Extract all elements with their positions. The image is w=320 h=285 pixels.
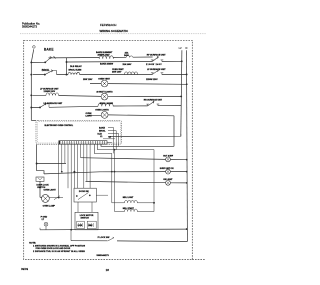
lamp row A (81, 158, 187, 160)
svg-text:BROIL ELEM: BROIL ELEM (69, 69, 82, 71)
svg-text:OVEN LIGHT: OVEN LIGHT (44, 189, 57, 191)
heater oven vent element (125, 72, 138, 75)
svg-text:LR SURFACE UNIT: LR SURFACE UNIT (44, 102, 63, 105)
lock motor box 2 (75, 212, 98, 230)
pin stub 3 (108, 134, 119, 147)
switch broil (row2) (44, 70, 57, 76)
wire control lower feed (101, 144, 174, 146)
wire row1 jog (66, 58, 68, 62)
resistor bake element (99, 56, 113, 59)
wire dlb drop (66, 62, 68, 75)
svg-text:LIGHT: LIGHT (86, 116, 93, 118)
indicator lamp C (166, 180, 171, 185)
svg-text:OVEN VENT: OVEN VENT (98, 78, 110, 80)
svg-text:MDL START: MDL START (123, 207, 135, 210)
svg-text:OVEN LAMP: OVEN LAMP (43, 205, 56, 208)
wire row2 (33, 73, 187, 75)
svg-text:N: N (186, 46, 188, 50)
svg-text:L2: L2 (179, 46, 183, 50)
svg-text:LOCK: LOCK (78, 225, 83, 227)
relay box 1 (74, 188, 96, 202)
resistor broil element (68, 72, 80, 74)
svg-text:WIRING SCHEMATIC: WIRING SCHEMATIC (100, 29, 129, 33)
sub box unlock (87, 221, 96, 229)
wire L2 rail (181, 50, 182, 136)
svg-text:1250W 120V: 1250W 120V (146, 79, 158, 81)
svg-text:L1: L1 (100, 136, 103, 138)
svg-text:FEF352ACH: FEF352ACH (100, 23, 116, 27)
svg-text:RR SURFACE UNIT: RR SURFACE UNIT (144, 98, 163, 101)
svg-text:1250W 120V: 1250W 120V (44, 91, 56, 93)
op box electronic oven control (36, 120, 122, 144)
svg-text:BAKE: BAKE (44, 47, 54, 51)
svg-text:25A 240V: 25A 240V (123, 63, 132, 66)
pin stub 1 (108, 128, 114, 154)
svg-text:MDL LIGHT: MDL LIGHT (123, 197, 134, 199)
connector terminal strip (59, 141, 107, 145)
svg-text:DOOR SW: DOOR SW (79, 191, 89, 193)
svg-text:HOT SURF: HOT SURF (163, 156, 174, 158)
indicator lamp B (166, 169, 171, 174)
svg-text:DLB RELAY: DLB RELAY (70, 65, 82, 68)
header dotted rule (20, 33, 206, 35)
svg-text:DLB: DLB (98, 133, 103, 135)
wire L1 rail (31, 49, 33, 120)
svg-text:25W 120V: 25W 120V (83, 79, 93, 81)
svg-text:BAKE: BAKE (99, 126, 106, 129)
wire row1 upper branch (49, 56, 153, 59)
junction row4-L2 (180, 95, 182, 97)
coil latch relay 2 (115, 150, 155, 212)
svg-text:LT: LT (42, 219, 45, 221)
wire L1 to control corner (31, 119, 36, 121)
indicator lamp A (166, 157, 171, 162)
wire row4 (32, 95, 181, 96)
pin stub 4 to L2 (108, 135, 122, 137)
wire row5 (32, 106, 181, 108)
svg-text:2100W 240V: 2100W 240V (146, 63, 162, 66)
resistor broil inner element (row5) (98, 103, 113, 106)
labels tiny text (29, 47, 174, 257)
svg-text:1 SWITCHES SHOWN IN A NORMAL: 1 SWITCHES SHOWN IN A NORMAL OFF POSITIO… (33, 245, 86, 248)
svg-text:BROIL: BROIL (99, 130, 106, 132)
wire control to L2 (122, 134, 181, 136)
svg-text:2585W 240V: 2585W 240V (98, 53, 111, 56)
junction row1-L2 (181, 60, 183, 62)
svg-text:UNLK: UNLK (88, 225, 93, 227)
lamp oven light 2 (101, 112, 108, 119)
wire row3 oven vent (90, 82, 187, 85)
svg-text:18: 18 (106, 268, 110, 272)
coil latch relay 1 (112, 153, 154, 202)
lamp oven vent (101, 80, 108, 87)
svg-text:FOR OVEN DOOR LOCK AND DOOR: FOR OVEN DOOR LOCK AND DOOR (36, 247, 71, 250)
wire box1 to box2 (78, 202, 92, 212)
lamp row B (44, 172, 187, 174)
svg-text:240V: 240V (124, 54, 129, 57)
resistor surface unit row4 (46, 93, 59, 96)
wire door box to lamp (40, 181, 42, 198)
svg-text:BROIL 3000W: BROIL 3000W (100, 103, 113, 105)
svg-text:OVEN LIGHTS: OVEN LIGHTS (95, 110, 109, 112)
switch bake (row1) (44, 56, 56, 63)
svg-text:BAKE 2585W: BAKE 2585W (100, 62, 113, 65)
pin stub 2 (108, 131, 116, 150)
svg-text:BROIL: BROIL (42, 69, 50, 72)
svg-text:Publication No.: Publication No. (22, 21, 40, 25)
svg-text:5995344273: 5995344273 (97, 254, 110, 257)
svg-text:NOTE:: NOTE: (29, 243, 36, 245)
svg-text:SWITCH: SWITCH (81, 217, 90, 219)
wire row1 lower (31, 61, 182, 62)
svg-text:40 WATT LIGHTS: 40 WATT LIGHTS (96, 90, 113, 93)
lamp row C (86, 181, 187, 183)
wire row6 oven lamp row (88, 114, 174, 117)
svg-text:LF SURFACE UNIT: LF SURFACE UNIT (147, 68, 166, 71)
svg-text:5995344273: 5995344273 (22, 25, 37, 29)
thermal limiter row1 (126, 55, 133, 57)
wire row6 drop (173, 116, 175, 147)
svg-text:03/03: 03/03 (21, 267, 28, 271)
svg-text:RF SURFACE UNIT: RF SURFACE UNIT (147, 54, 166, 57)
wire strip right link (103, 139, 115, 143)
outer dashed frame (24, 40, 193, 259)
switch RR surface unit (row5 right) (146, 101, 159, 106)
switch LF surface unit (151, 69, 163, 74)
svg-text:SURF UNIT ON: SURF UNIT ON (160, 168, 174, 170)
svg-text:ON LIGHT: ON LIGHT (163, 179, 173, 181)
svg-text:ELECTRONIC OVEN CONTROL: ELECTRONIC OVEN CONTROL (45, 125, 74, 127)
lamp oven cavity light (42, 195, 50, 203)
node L1 terminal (33, 46, 36, 49)
wire harness verticals (58, 144, 60, 197)
svg-text:2 DISTANCE THR. IS IN AN UPRI: 2 DISTANCE THR. IS IN AN UPRIGHT IN ALL … (33, 250, 86, 253)
sub box lock (77, 221, 85, 229)
wire door circuit branch (36, 144, 38, 171)
lamp oven light 1 (101, 93, 108, 100)
switch light (49, 196, 63, 200)
footer page labels (21, 267, 109, 272)
header publication text (22, 21, 129, 33)
svg-text:25W 120V: 25W 120V (112, 72, 122, 74)
switch RF surface unit (151, 56, 163, 62)
wire N rail (186, 50, 189, 241)
ground lamp (44, 222, 48, 226)
switch LR surface unit (row5 left) (39, 103, 49, 108)
svg-text:LF SURFACE UNIT: LF SURFACE UNIT (40, 88, 59, 91)
wire bus mid (153, 150, 155, 212)
wire bottom neutral (40, 228, 187, 231)
switch lock (108, 237, 114, 241)
wire to door switch (37, 171, 44, 174)
svg-text:P LOCK SW: P LOCK SW (98, 237, 110, 239)
door switch box (36, 177, 44, 181)
junction row2-N (186, 73, 188, 75)
footer rule extension (192, 259, 205, 261)
wire bottom lock (71, 240, 187, 243)
